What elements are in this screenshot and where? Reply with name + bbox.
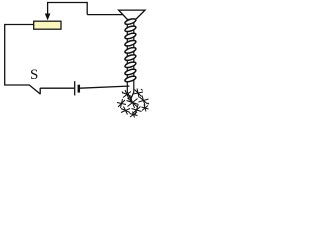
- battery negative plate (short thick): [78, 85, 81, 93]
- pin star 7: [132, 105, 142, 115]
- switch right contact post: [39, 88, 41, 94]
- battery positive plate (long): [74, 81, 76, 95]
- coil turn 4: [124, 39, 136, 47]
- pin star 4: [127, 97, 139, 108]
- wire battery to electromagnet: [80, 86, 129, 88]
- pin star 6: [121, 107, 130, 115]
- coil turn 7: [124, 61, 136, 69]
- coil turn 8: [124, 68, 136, 76]
- coil turn 1: [124, 18, 136, 26]
- wire top-left horizontal to rheostat: [4, 24, 33, 26]
- wire top horizontal: [47, 2, 87, 4]
- coil turn 9: [124, 75, 136, 83]
- screw tip: [127, 92, 134, 99]
- resistor R1 (rheostat body): [34, 21, 61, 29]
- pin star 9: [130, 112, 138, 118]
- pin star 8: [142, 105, 149, 112]
- wire switch to battery: [40, 87, 74, 89]
- wire step vertical: [86, 2, 88, 15]
- pin star 5: [139, 96, 149, 106]
- wire top-right horizontal to screw head: [87, 14, 124, 16]
- wire left vertical: [4, 25, 6, 86]
- svg-text:S: S: [30, 67, 38, 83]
- coil turn 5: [124, 47, 136, 55]
- pin star 2: [133, 89, 143, 98]
- screw head: [119, 10, 145, 19]
- coil turn 3: [124, 32, 136, 40]
- wire slider drop with arrow: [45, 3, 51, 21]
- pin star 1: [122, 90, 131, 99]
- pin star 3: [117, 99, 126, 108]
- wire bottom-left horizontal: [4, 84, 29, 86]
- screw shaft: [127, 19, 134, 92]
- switch S blade: [29, 85, 40, 94]
- coil turn 6: [124, 54, 136, 62]
- coil turn 2: [124, 25, 136, 33]
